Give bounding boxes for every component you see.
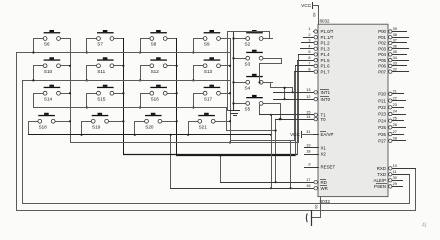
junction [69,92,71,94]
svg-text:32: 32 [393,67,397,71]
svg-text:S11: S11 [97,69,105,74]
svg-text:6: 6 [308,56,310,60]
wire [140,65,142,81]
svg-text:P27: P27 [378,139,386,144]
svg-text:33: 33 [393,62,397,66]
svg-text:3: 3 [308,39,310,43]
junction [291,91,293,93]
capacitor C1 (ground return) [306,210,311,226]
wire [193,93,195,108]
svg-text:S6: S6 [44,42,50,47]
wire [140,38,142,53]
wire [118,121,124,123]
junction [86,79,88,81]
svg-text:13: 13 [306,88,310,92]
pushbutton S3 [236,50,273,67]
wire row 3 bus [33,107,227,109]
svg-text:ALE/P: ALE/P [374,178,387,183]
wire S5 to T1 [259,105,261,115]
svg-text:P24: P24 [378,118,386,123]
power VCC pin40 [301,2,319,25]
svg-text:22: 22 [393,96,397,100]
wire col3 run [176,65,296,156]
junction [219,154,221,156]
svg-text:S7: S7 [97,42,103,47]
junction [280,118,282,120]
junction [192,79,194,81]
pin 6 P1.5 [297,56,330,63]
svg-text:INT1: INT1 [321,90,331,95]
svg-text:S13: S13 [204,69,213,74]
pin 34 P05 [378,56,409,63]
pushbutton S10 [33,57,71,74]
junction [32,51,34,53]
svg-text:P03: P03 [378,46,386,51]
svg-text:S14: S14 [44,96,53,101]
svg-text:37: 37 [393,39,397,43]
svg-text:P04: P04 [378,52,386,57]
junction [229,120,231,122]
pin 23 P22 [378,103,404,110]
wire column line 3 [176,38,178,156]
svg-text:26: 26 [393,123,397,127]
pushbutton S20 [134,113,172,130]
wire row3 run [226,107,276,131]
svg-text:P1.0/T: P1.0/T [321,29,334,34]
junction [192,51,194,53]
wire column line 2 [123,38,125,155]
wire [81,121,83,135]
wire row 4 bus [28,134,272,136]
pushbutton S17 [193,85,231,102]
pushbutton S11 [86,57,124,74]
svg-text:8032: 8032 [320,19,331,24]
junction [69,120,71,122]
svg-text:1: 1 [308,27,310,31]
svg-text:S3: S3 [245,61,251,66]
svg-text:WR: WR [321,186,328,191]
pin 25 P24 [378,116,404,123]
pushbutton S19 [81,113,119,130]
svg-text:P00: P00 [378,29,386,34]
junction [122,92,124,94]
junction [290,187,292,189]
svg-text:P01: P01 [378,35,386,40]
pushbutton S6 [33,30,71,47]
pin 38 P01 [378,33,409,40]
wire RD left branch [220,155,222,183]
pushbutton S2 [236,30,273,47]
svg-text:19: 19 [306,144,310,148]
svg-text:P02: P02 [378,41,386,46]
pin 19 X1 [304,144,326,151]
svg-text:P1.7: P1.7 [321,69,331,74]
pin 12 INT0 [273,95,331,102]
junction [139,106,141,108]
svg-text:S15: S15 [97,96,106,101]
svg-text:S12: S12 [151,69,160,74]
wire [33,65,35,81]
svg-text:S20: S20 [145,125,154,130]
junction [170,134,172,136]
svg-text:21: 21 [393,90,397,94]
pin 11 TXD [377,170,410,177]
pushbutton S13 [193,57,231,74]
svg-text:INT0: INT0 [321,97,331,102]
svg-text:P07: P07 [378,69,386,74]
svg-text:7: 7 [308,62,310,66]
wire S4 to INT1 [270,82,293,93]
svg-text:20: 20 [314,205,318,209]
wire row 1 bus [16,52,231,54]
svg-text:8032: 8032 [320,199,331,204]
svg-text:P06: P06 [378,64,386,69]
svg-text:11: 11 [393,170,397,174]
svg-text:P20: P20 [378,92,386,97]
svg-text:S5: S5 [245,107,251,112]
svg-text:S21: S21 [199,125,208,130]
svg-text:5: 5 [308,50,310,54]
svg-text:S4: S4 [245,86,251,91]
svg-text:8: 8 [308,67,310,71]
svg-text:P23: P23 [378,112,386,117]
junction [229,141,231,143]
wire [233,58,237,60]
wire [28,121,30,135]
pin 21 P20 [378,90,404,97]
junction [122,65,124,67]
junction [232,81,234,83]
svg-text:28: 28 [393,137,397,141]
svg-text:T0: T0 [321,117,327,122]
svg-text:35: 35 [393,50,397,54]
op-amp substitute: MCU U1 8032 body [318,24,388,196]
pin 15 T1 [259,111,326,118]
wire column line 4 [230,38,232,143]
pin 3 P1.2 [301,39,330,46]
svg-text:30: 30 [393,176,397,180]
junction [69,65,71,67]
wire WR mid branch [290,140,292,189]
pin 20 GND wire [311,196,321,218]
pushbutton S21 [188,113,225,130]
wire [233,82,237,84]
svg-text:VCC: VCC [301,3,312,9]
svg-text:23: 23 [393,103,397,107]
junction [86,51,88,53]
pushbutton S8 [140,30,177,47]
wire row2 to TXD loop [22,80,410,204]
pin 14 T0 [275,115,326,122]
pin 17 RD [220,178,327,185]
pin 9 RESET [304,163,335,170]
wire row 2 bus [22,80,231,82]
junction [32,79,34,81]
pin 1 P1.0/T [308,27,333,34]
pin 18 X2 [304,150,326,157]
svg-text:29: 29 [393,182,397,186]
power VCC EA/VP pin31 [290,131,319,138]
junction [275,129,277,131]
wire WR branch [170,134,172,189]
svg-text:X1: X1 [321,146,327,151]
wire col4 run [230,71,295,141]
wire column line 1 [70,38,72,143]
pushbutton S5 [236,95,273,112]
pin 24 P23 [378,110,406,117]
svg-text:4): 4) [422,223,427,229]
wire outer bus [227,31,231,111]
junction [187,134,189,136]
wire [224,121,231,123]
wire [33,38,35,53]
pin 32 P07 [378,67,409,74]
svg-text:P1.3: P1.3 [321,46,331,51]
svg-text:2: 2 [308,33,310,37]
junction [270,187,272,189]
svg-text:9: 9 [308,163,310,167]
pin 31 EA/VP [306,130,333,137]
wire T0/RD vertical [275,119,277,183]
svg-text:18: 18 [306,150,310,154]
pin 37 P02 [378,39,407,46]
wire [64,121,71,123]
svg-text:38: 38 [393,33,397,37]
junction [192,106,194,108]
svg-text:14: 14 [306,115,310,119]
pushbutton S9 [193,30,231,47]
pin 10 RXD [377,164,416,171]
svg-text:P21: P21 [378,98,386,103]
pushbutton S16 [140,85,177,102]
wire row1 to RXD loop [16,52,416,211]
svg-text:S2: S2 [245,42,251,47]
wire col2 run [123,60,298,155]
svg-text:40: 40 [312,13,316,17]
junction [139,51,141,53]
pushbutton S12 [140,57,177,74]
pushbutton S14 [33,85,71,102]
pin 39 P00 [378,27,407,34]
svg-text:S17: S17 [204,96,213,101]
pin 27 P26 [378,130,404,137]
junction [176,65,178,67]
pin 26 P25 [378,123,406,130]
pin 33 P06 [378,62,407,69]
pin 22 P21 [378,96,406,103]
junction [232,37,234,39]
wire T1 vertical to WR [271,114,273,189]
wire [171,121,177,123]
svg-text:17: 17 [306,178,310,182]
svg-text:VCC: VCC [290,132,300,137]
junction [232,57,234,59]
wire S5 to T0 [272,103,281,120]
wire [33,93,35,108]
svg-text:P22: P22 [378,105,386,110]
svg-text:39: 39 [393,27,397,31]
pin 5 P1.4 [298,50,330,57]
junction [279,118,281,120]
svg-text:P05: P05 [378,58,386,63]
pushbutton S18 [28,113,65,130]
svg-text:34: 34 [393,56,397,60]
pin 16 WR [170,184,328,191]
junction [258,81,260,83]
wire col1 run [70,54,299,143]
wire INT0 feed [284,87,286,100]
wire [86,93,88,108]
wire bus top [227,31,270,33]
svg-text:36: 36 [393,44,397,48]
wire [188,121,190,135]
pushbutton S4 [236,74,273,91]
junction [134,134,136,136]
svg-text:S18: S18 [39,125,48,130]
junction [270,114,272,116]
junction [229,65,231,67]
svg-text:P26: P26 [378,132,386,137]
svg-text:10: 10 [393,164,397,168]
pin 2 P1.1/T [303,33,334,40]
pin 8 P1.7 [294,67,330,74]
svg-text:S10: S10 [44,69,53,74]
wire [233,103,237,105]
pushbutton S7 [86,30,124,47]
wire [86,65,88,81]
pin 13 INT1 [273,88,331,95]
ground [229,111,240,116]
svg-text:16: 16 [306,184,310,188]
wire [233,38,237,40]
svg-text:S9: S9 [204,42,210,47]
svg-text:RXD: RXD [377,166,386,171]
svg-text:PSEN: PSEN [374,184,386,189]
junction [275,181,277,183]
junction [284,87,286,89]
svg-text:31: 31 [306,130,310,134]
svg-text:P1.5: P1.5 [321,58,331,63]
junction [232,102,234,104]
pin 29 PSEN [374,182,403,189]
pushbutton S15 [86,85,124,102]
svg-text:P1.4: P1.4 [321,52,331,57]
junction [284,98,286,100]
junction [122,120,124,122]
pin 28 P27 [378,137,406,144]
wire S2 loop [269,31,273,39]
svg-text:S16: S16 [151,96,160,101]
svg-text:TXD: TXD [377,172,386,177]
pin 30 ALE/P [374,176,403,183]
svg-text:RD: RD [321,180,327,185]
pin 4 P1.3 [300,44,330,51]
wire [140,93,142,108]
junction [270,134,272,136]
wire [134,121,136,135]
wire ground bus [233,31,235,111]
svg-text:4: 4 [308,44,310,48]
svg-text:S8: S8 [151,42,157,47]
wire [193,65,195,81]
svg-text:S19: S19 [92,125,101,130]
wire [86,38,88,53]
junction [80,134,82,136]
junction [176,120,178,122]
svg-text:RESET: RESET [321,165,336,170]
pin 7 P1.6 [295,62,330,69]
svg-text:24: 24 [393,110,397,114]
svg-text:27: 27 [393,130,397,134]
svg-text:P1.6: P1.6 [321,64,331,69]
junction [86,106,88,108]
wire S3 loop [259,58,282,83]
junction [229,92,231,94]
svg-text:X2: X2 [321,152,327,157]
junction [176,92,178,94]
pin 36 P03 [378,44,409,51]
svg-text:P25: P25 [378,125,386,130]
wire [193,38,195,53]
junction [139,79,141,81]
svg-text:EA/VP: EA/VP [321,132,334,137]
svg-text:25: 25 [393,116,397,120]
svg-text:P1.1/T: P1.1/T [321,35,334,40]
pin 35 P04 [378,50,407,57]
svg-text:12: 12 [306,95,310,99]
svg-text:P1.2: P1.2 [321,41,331,46]
